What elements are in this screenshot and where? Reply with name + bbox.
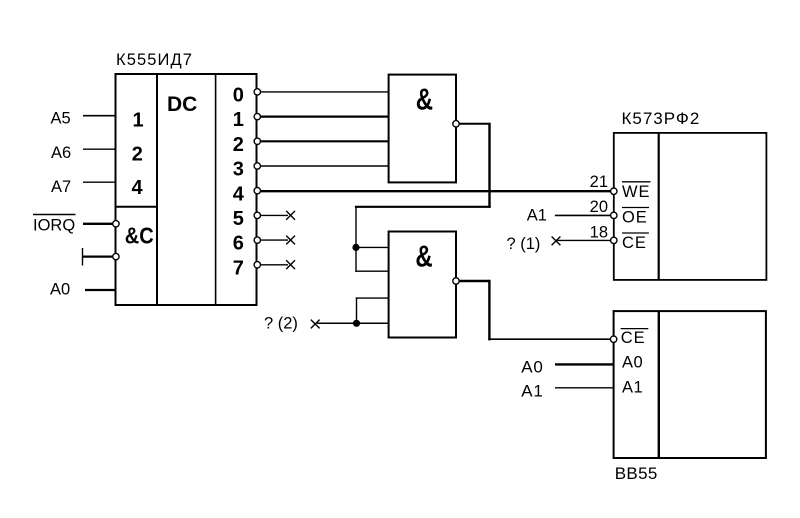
wire U2 output left — [355, 206, 491, 208]
AND gate U3 output bubble — [453, 278, 459, 284]
wire A1 to D2 — [555, 387, 614, 389]
svg-text:? (1): ? (1) — [507, 235, 541, 253]
wire U2 output right — [459, 123, 489, 125]
output bubble 2 — [254, 138, 260, 144]
wire IORQ — [83, 223, 113, 225]
svg-text:4: 4 — [233, 183, 245, 205]
no-connect X node ?2 — [311, 320, 320, 329]
svg-text:CE: CE — [622, 234, 647, 252]
peripheral D2 BB55 outline — [614, 311, 766, 458]
wire A1 to OE pin 20 — [555, 214, 611, 216]
junction dot U3 input 4 — [353, 320, 360, 327]
wire U3 input 3 riser — [356, 297, 358, 323]
wire A0 — [85, 289, 116, 291]
inverted input bubble stub — [113, 253, 119, 259]
AND gate U2 outline — [389, 75, 456, 183]
output bubble 6 — [254, 237, 260, 243]
inverted pin bubble WE — [611, 188, 617, 194]
decoder U1 K555ID7 outline — [116, 74, 257, 305]
svg-text:A6: A6 — [51, 144, 71, 162]
svg-text:OE: OE — [622, 208, 648, 226]
wire node ?1 to CE pin 18 — [556, 239, 611, 241]
output bubble 5 — [254, 212, 260, 218]
svg-text:4: 4 — [131, 177, 143, 199]
svg-text:1: 1 — [233, 109, 244, 131]
unconnected stub input tick — [82, 248, 84, 266]
wire U2 output down — [488, 123, 490, 208]
output bubble 0 — [254, 89, 260, 95]
wire U2 output down to U3 — [355, 207, 357, 272]
svg-text:1: 1 — [132, 110, 143, 132]
svg-text:18: 18 — [590, 223, 608, 241]
no-connect X output 5 — [286, 211, 295, 220]
svg-text:A0: A0 — [622, 353, 643, 371]
wire output 0 to AND U2 — [261, 91, 390, 93]
svg-text:A0: A0 — [50, 281, 70, 299]
svg-text:CE: CE — [621, 329, 646, 347]
no-connect X output 7 — [286, 260, 295, 269]
inverted pin bubble CE of D2 — [610, 336, 616, 342]
svg-text:6: 6 — [233, 233, 244, 255]
svg-text:&C: &C — [125, 222, 154, 249]
inverted pin bubble CE — [611, 237, 617, 243]
output bubble 1 — [254, 113, 260, 119]
wire A5 — [83, 115, 116, 117]
AND gate U2 output bubble — [453, 121, 459, 127]
svg-text:DC: DC — [167, 93, 197, 116]
wire output 4 to WE pin 21 — [261, 190, 611, 192]
output bubble 7 — [254, 262, 260, 268]
wire output 2 to AND U2 — [261, 140, 390, 142]
output bubble 4 — [254, 188, 260, 194]
svg-text:? (2): ? (2) — [264, 315, 298, 333]
EPROM D1 K573RF2 outline — [614, 133, 767, 280]
svg-text:IORQ: IORQ — [33, 217, 75, 235]
svg-text:К573РФ2: К573РФ2 — [622, 109, 701, 128]
AND gate U3 outline — [389, 232, 456, 338]
svg-text:BB55: BB55 — [615, 464, 658, 483]
enable section label &C — [125, 222, 154, 249]
wire stub input — [83, 256, 113, 258]
svg-text:2: 2 — [233, 134, 244, 156]
svg-text:2: 2 — [132, 144, 143, 166]
AND gate U2 label & — [416, 81, 433, 115]
wire node ?2 to U3 input 4 — [317, 322, 389, 324]
svg-text:0: 0 — [233, 85, 244, 107]
svg-text:A1: A1 — [527, 206, 547, 224]
wire output 6 stub — [261, 239, 289, 241]
wire output 5 stub — [261, 214, 289, 216]
svg-text:3: 3 — [233, 159, 244, 181]
AND gate U3 label & — [415, 239, 432, 273]
svg-text:20: 20 — [590, 198, 608, 216]
wire U3 input 1 — [356, 246, 389, 248]
inverted pin bubble OE — [611, 212, 617, 218]
svg-text:A5: A5 — [51, 110, 71, 128]
svg-text:К555ИД7: К555ИД7 — [116, 51, 193, 69]
wire U3 input 3 — [356, 297, 389, 299]
svg-text:A1: A1 — [622, 378, 643, 396]
svg-text:A1: A1 — [521, 381, 544, 400]
no-connect X output 6 — [286, 236, 295, 245]
wire A0 to D2 — [555, 363, 614, 365]
svg-text:A0: A0 — [521, 358, 544, 377]
wire output 1 to AND U2 — [261, 115, 390, 117]
wire A6 — [83, 148, 116, 150]
svg-text:WE: WE — [622, 183, 650, 201]
svg-text:21: 21 — [590, 173, 608, 191]
wire U3 output to CE of D2 — [488, 338, 610, 340]
no-connect X node ?1 — [552, 237, 561, 246]
svg-text:&: & — [416, 81, 433, 115]
wire U3 output down — [488, 280, 490, 341]
output bubble 3 — [254, 163, 260, 169]
svg-text:&: & — [415, 239, 432, 273]
inverted input bubble IORQ — [113, 221, 119, 227]
wire output 7 stub — [261, 264, 289, 266]
junction dot U3 input 1 — [352, 244, 359, 251]
wire U3 input 2 — [355, 270, 389, 272]
svg-text:5: 5 — [233, 208, 244, 230]
svg-text:7: 7 — [233, 257, 244, 279]
wire U3 output right — [459, 280, 489, 282]
wire A7 — [83, 181, 116, 183]
wire output 3 to AND U2 — [261, 165, 390, 167]
svg-text:A7: A7 — [51, 178, 71, 196]
